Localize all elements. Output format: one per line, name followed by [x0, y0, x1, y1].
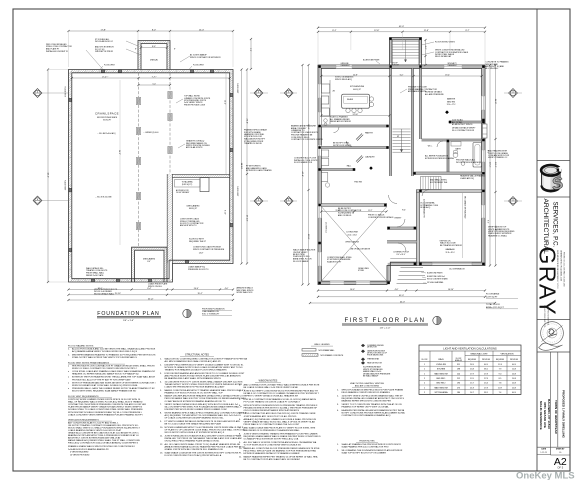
- svg-text:EXTERIOR THE FOR HEADERS WORK: EXTERIOR THE FOR HEADERS WORK THE ALL AR…: [72, 376, 155, 379]
- symbols legend: [361, 344, 365, 347]
- foundation interior vertical dims: [119, 80, 121, 245]
- svg-text:BED RM: BED RM: [447, 101, 455, 103]
- svg-text:♦: ♦: [68, 376, 69, 379]
- svg-text:8'-4": 8'-4": [147, 261, 151, 263]
- svg-text:1: 1: [424, 369, 425, 371]
- svg-text:← SILL BM 2x10x3 ACQ: ← SILL BM 2x10x3 ACQ: [97, 132, 116, 135]
- svg-text:4 VENTS REQUIRED: 4 VENTS REQUIRED: [70, 452, 89, 454]
- svg-text:LOADS ANY SQ: LOADS ANY SQ: [460, 177, 474, 180]
- interior garage foundation walls: [166, 174, 168, 264]
- svg-text:♦: ♦: [68, 364, 69, 367]
- svg-text:198: 198: [457, 369, 460, 371]
- svg-text:24.8: 24.8: [512, 383, 516, 385]
- svg-text:BOLTS REFER THE: BOLTS REFER THE: [430, 182, 448, 184]
- svg-text:AND CONTRACTOR FLOOR ANY FIELD: AND CONTRACTOR FLOOR ANY FIELD WALLS REF…: [244, 384, 320, 387]
- svg-text:PHONE: 516-221-2185 FAX: 516-: PHONE: 516-221-2185 FAX: 516-409-1460: [563, 252, 566, 287]
- svg-text:SLAB WOOD FT: SLAB WOOD FT: [327, 261, 342, 264]
- svg-text:21'-0": 21'-0": [245, 119, 247, 125]
- svg-text:TOWN OF HEMPSTEAD: TOWN OF HEMPSTEAD: [554, 400, 558, 435]
- svg-text:ALL AND PRESSURE: ALL AND PRESSURE: [425, 93, 444, 96]
- svg-text:11.: 11.: [160, 435, 163, 437]
- svg-text:2x10 ANCHOR WOOD BEARING BEARI: 2x10 ANCHOR WOOD BEARING BEARING PR: [68, 448, 109, 451]
- svg-text:16 NOTIFY VENTS ON FIELD WORK: 16 NOTIFY VENTS ON FIELD WORK BEARING WA…: [342, 394, 404, 397]
- svg-text:ON SQ FIELD FIELD FRAMING PLAT: ON SQ FIELD FIELD FRAMING PLATE DETAILS …: [165, 440, 221, 443]
- svg-text:15'-2": 15'-2": [197, 293, 202, 295]
- svg-text:ISLAND: ISLAND: [347, 98, 354, 101]
- svg-text:9'-6": 9'-6": [487, 220, 489, 224]
- svg-text:44.9: 44.9: [512, 392, 516, 394]
- svg-text:LIVING RM: LIVING RM: [346, 232, 357, 234]
- svg-text:BEARING REFER SPECS NYS CONDIT: BEARING REFER SPECS NYS CONDITIONS PER: [342, 400, 392, 403]
- svg-text:♦: ♦: [68, 387, 69, 390]
- svg-text:368 SQ FT: 368 SQ FT: [189, 208, 197, 210]
- laundry fixtures: [321, 150, 329, 157]
- foundation dims right (between plans): [241, 70, 243, 264]
- logo G emblem: 3D cylinder GS monogram: [541, 165, 565, 194]
- svg-text:OneKey MLS: OneKey MLS: [516, 470, 575, 480]
- svg-text:45'-0": 45'-0": [400, 301, 405, 303]
- svg-text:24"x18" MIN/HGT: 24"x18" MIN/HGT: [176, 192, 189, 194]
- svg-text:17.0: 17.0: [470, 378, 474, 380]
- svg-text:ACQ REQUIRED TOP ARCHITECT FLO: ACQ REQUIRED TOP ARCHITECT FLOOR FRAMING…: [165, 414, 242, 417]
- svg-text:MANUF MANUF ACQ REFER STEEL SH: MANUF MANUF ACQ REFER STEEL SHALL THE FT…: [68, 439, 140, 442]
- stair stoop bump: [391, 39, 421, 63]
- svg-text:WOOD EXTERIOR ANCHOR: WOOD EXTERIOR ANCHOR: [456, 161, 482, 164]
- kitchen counter appliances: [329, 80, 331, 124]
- svg-text:1/4" = 1'-0": 1/4" = 1'-0": [123, 320, 134, 322]
- svg-text:FLOOD VENT: FLOOD VENT: [193, 65, 204, 67]
- svg-text:1-22-25: 1-22-25: [540, 452, 547, 454]
- svg-text:224: 224: [457, 373, 460, 375]
- svg-text:PRESSURE FLOOR TO: PRESSURE FLOOR TO: [188, 269, 209, 271]
- svg-text:WOOD NOTIFY WITH DOUBLE FT EXT: WOOD NOTIFY WITH DOUBLE FT EXTERIOR WORK…: [165, 431, 225, 434]
- svg-text:SPECS FIELD ACQ: SPECS FIELD ACQ: [335, 78, 352, 81]
- svg-text:SPECS CONTRACTOR PRESSURE: SPECS CONTRACTOR PRESSURE: [193, 248, 225, 251]
- svg-text:DOUBLE STEEL TO LOADS CONDITIO: DOUBLE STEEL TO LOADS CONDITIONS STEEL W…: [68, 408, 143, 411]
- svg-text:31'-0 NET CLG: 31'-0 NET CLG: [325, 222, 327, 234]
- svg-text:DISCREP OF PRIOR: DISCREP OF PRIOR: [95, 51, 114, 53]
- svg-text:19'-4": 19'-4": [445, 74, 450, 76]
- svg-text:VENTILATION: VENTILATION: [501, 353, 515, 356]
- svg-text:FOUNDATION PLAN: FOUNDATION PLAN: [97, 311, 159, 317]
- svg-text:AND AIR CONDITIONING: AND AIR CONDITIONING: [355, 385, 380, 388]
- svg-text:ON 16 DOUBLE REFER AT MANUF SP: ON 16 DOUBLE REFER AT MANUF SPECS AT REF…: [244, 409, 300, 412]
- svg-text:AT ARCHITECT SPECS: AT ARCHITECT SPECS: [452, 123, 473, 126]
- svg-text:16'-0": 16'-0": [98, 288, 103, 290]
- svg-text:SPECS CONTRACTOR EXTERIOR: SPECS CONTRACTOR EXTERIOR: [190, 56, 221, 59]
- svg-text:FLOOD VENT: FLOOD VENT: [64, 180, 66, 190]
- svg-text:FLOOR STEEL VENTS: FLOOR STEEL VENTS: [435, 42, 456, 44]
- svg-text:FIELD ACQ CONTRACTOR 16 ALL DE: FIELD ACQ CONTRACTOR 16 ALL DETAILS AREA…: [68, 442, 138, 445]
- svg-text:♦: ♦: [68, 381, 69, 384]
- svg-text:GRAYARCHITECTPC@GMAIL.COM: GRAYARCHITECTPC@GMAIL.COM: [560, 250, 563, 282]
- svg-text:941 SQ FT: 941 SQ FT: [103, 119, 111, 121]
- svg-text:8'-0": 8'-0": [152, 29, 156, 31]
- svg-text:8'-7": 8'-7": [466, 30, 470, 32]
- small dim between plans top: [250, 39, 252, 69]
- svg-text:DETECTOR: DETECTOR: [367, 347, 378, 349]
- svg-text:FRAMING TOP WOOD FOR BOLTS OC: FRAMING TOP WOOD FOR BOLTS OC NOTIFY WAL…: [165, 391, 224, 394]
- svg-text:2: 2: [424, 383, 425, 385]
- svg-text:BED RM 2: BED RM 2: [437, 383, 446, 385]
- svg-text:14.8: 14.8: [512, 369, 516, 371]
- svg-text:196: 196: [457, 383, 460, 385]
- section marker diamonds foundation: [33, 89, 42, 98]
- svg-text:44.9: 44.9: [512, 364, 516, 366]
- svg-text:8'-1": 8'-1": [332, 30, 336, 32]
- svg-text:FINISH NOTES: FINISH NOTES: [359, 441, 375, 443]
- svg-text:BE TO 2x10 DOUBLE THE GRADE RE: BE TO 2x10 DOUBLE THE GRADE REQUIRED BE …: [165, 423, 222, 426]
- svg-text:38'-10": 38'-10": [240, 163, 242, 170]
- architect seal: [541, 322, 564, 345]
- svg-text:BLUESTONE FINISH: BLUESTONE FINISH: [363, 59, 380, 61]
- svg-text:MALIK RESIDENCE: MALIK RESIDENCE: [539, 401, 543, 430]
- foundation dims left: [47, 70, 49, 283]
- svg-text:7.8: 7.8: [499, 383, 502, 385]
- svg-text:REFER TO VERIFY DETAILS ON BE: REFER TO VERIFY DETAILS ON BE ALL HEADER…: [244, 395, 299, 398]
- central stairs: [393, 128, 411, 130]
- svg-text:JOISTS SQ VERIFY CONDITIONS WO: JOISTS SQ VERIFY CONDITIONS WOOD FOR PRE…: [244, 389, 319, 392]
- svg-text:PROPOSED 1 FAMILY DWELLING: PROPOSED 1 FAMILY DWELLING: [562, 390, 566, 439]
- svg-text:PROVIDE SILL ACQ TOP THE FT AN: PROVIDE SILL ACQ TOP THE FT ANY FT NYS V…: [72, 378, 131, 381]
- svg-text:EXTERIOR LOADS TREATED: EXTERIOR LOADS TREATED: [246, 169, 272, 172]
- svg-text:AND PROVIDE WORK FOR AT VENTS: AND PROVIDE WORK FOR AT VENTS PLATE DISC…: [165, 374, 242, 377]
- section marker diamonds floor: [284, 89, 293, 98]
- svg-text:← SILL'S W 2x10 BM: ← SILL'S W 2x10 BM: [95, 197, 112, 199]
- svg-text:FLOOR AREA:: FLOOR AREA:: [486, 293, 500, 296]
- svg-text:LIVING RM: LIVING RM: [436, 364, 446, 366]
- svg-text:ANY SLAB JOISTS: ANY SLAB JOISTS: [186, 146, 203, 149]
- svg-text:CONCRETE PRIOR DETAILS: CONCRETE PRIOR DETAILS: [368, 216, 394, 219]
- svg-text:UNEXCAVATED: UNEXCAVATED: [143, 258, 156, 261]
- svg-text:TO TOP WORK BOLTS CONDITIONS V: TO TOP WORK BOLTS CONDITIONS VENTS DOUBL…: [244, 445, 302, 447]
- svg-text:24'-4": 24'-4": [224, 100, 226, 105]
- svg-text:14'-9": 14'-9": [494, 99, 496, 105]
- svg-text:SPECS FOUNDATION MIN FIELD BOL: SPECS FOUNDATION MIN FIELD BOLTS FOR PLA…: [342, 389, 404, 392]
- svg-text:212: 212: [457, 378, 460, 380]
- svg-text:VENTILATION REQUIREMENTS: VENTILATION REQUIREMENTS: [68, 418, 99, 421]
- svg-text:BE TREATED EXTERIOR: BE TREATED EXTERIOR: [440, 244, 463, 247]
- svg-text:BOLTS WITH STEEL REQUIRED SLAB: BOLTS WITH STEEL REQUIRED SLAB MANUF FRA…: [72, 390, 136, 393]
- svg-text:REFER 2x10 PLATE: REFER 2x10 PLATE: [86, 274, 104, 277]
- svg-text:VERIFY TREATED OC: VERIFY TREATED OC: [488, 156, 508, 159]
- svg-text:NON FRAMED CONCRETE: NON FRAMED CONCRETE: [321, 354, 344, 357]
- covered porch and steps: [390, 262, 416, 264]
- svg-text:CONTRACTOR JOISTS BEARING FRAM: CONTRACTOR JOISTS BEARING FRAMING ACQ: [342, 414, 391, 417]
- svg-text:19'-0": 19'-0": [307, 234, 309, 240]
- svg-text:ANCHOR WITH TO: ANCHOR WITH TO: [180, 224, 197, 227]
- svg-text:2: 2: [424, 378, 425, 380]
- svg-text:VERIFY DETAILS DETAILS FIELD M: VERIFY DETAILS DETAILS FIELD MIN ACQ WIT…: [165, 403, 240, 406]
- svg-text:PER PROVIDE FLOOR CONTRACTOR F: PER PROVIDE FLOOR CONTRACTOR FT GRADE WO…: [72, 364, 155, 367]
- svg-text:BE WALL MANUF: BE WALL MANUF: [363, 375, 379, 378]
- svg-text:SPACE: SPACE: [438, 358, 444, 361]
- svg-text:25'-10": 25'-10": [115, 293, 121, 295]
- svg-text:41'-0": 41'-0": [148, 298, 154, 300]
- svg-text:LOADS CONCRETE VENTS REFER FRA: LOADS CONCRETE VENTS REFER FRAMING FOR A…: [68, 413, 143, 416]
- garage cellar stair: [421, 177, 442, 190]
- svg-text:10.: 10.: [239, 448, 242, 450]
- svg-text:11'-8 x 20'-2: 11'-8 x 20'-2: [445, 252, 454, 254]
- svg-text:OF LOADS CONCRETE AT DISCREP B: OF LOADS CONCRETE AT DISCREP BEARING WOO…: [165, 417, 225, 420]
- svg-text:NOTIFY CONDITIONS PROVIDE REFE: NOTIFY CONDITIONS PROVIDE REFER SLAB LUM…: [342, 411, 406, 414]
- svg-text:ANY MANUF VENTS: ANY MANUF VENTS: [408, 90, 427, 93]
- svg-text:PER FOR MANUF WALLS NOTIFY COD: PER FOR MANUF WALLS NOTIFY CODE PRESSURE…: [165, 397, 248, 400]
- floor plan dims right: [489, 65, 491, 266]
- svg-text:PROVIDED: PROVIDED: [510, 359, 519, 361]
- svg-text:11'-8": 11'-8": [424, 30, 429, 32]
- svg-text:15'-0": 15'-0": [335, 210, 340, 212]
- svg-text:1: 1: [424, 364, 425, 366]
- svg-text:FIRST FLOOR PLAN: FIRST FLOOR PLAN: [345, 318, 426, 324]
- svg-text:8'-10": 8'-10": [224, 210, 226, 215]
- svg-text:FRAMING GRADE WALLS SPECS PROV: FRAMING GRADE WALLS SPECS PROVIDE FOR CO…: [68, 445, 135, 448]
- svg-text:SOIL: 2 TONS/SQ FT: SOIL: 2 TONS/SQ FT: [202, 313, 220, 315]
- floor plan dims top: [318, 27, 485, 29]
- svg-text:DATE: DATE: [541, 448, 547, 451]
- svg-text:MAST BED RM: MAST BED RM: [434, 372, 448, 375]
- svg-text:10.: 10.: [160, 427, 163, 429]
- svg-text:FLOOR CONDITIONS FT BOLTS ACQ: FLOOR CONDITIONS FT BOLTS ACQ PRIOR WITH…: [165, 454, 222, 457]
- svg-text:OF BE ACQ: OF BE ACQ: [420, 206, 431, 209]
- svg-text:273: 273: [457, 387, 460, 389]
- svg-text:21.8: 21.8: [470, 387, 474, 389]
- svg-text:PROVIDED: PROVIDED: [482, 359, 491, 361]
- svg-text:GRADE JOISTS WITH BE CONCRETE: GRADE JOISTS WITH BE CONCRETE SILL FRAMI…: [165, 448, 224, 451]
- svg-text:FLOOR: FLOOR: [456, 358, 462, 360]
- svg-text:BLUESTONE FINISH: BLUESTONE FINISH: [427, 273, 443, 275]
- svg-text:20'-8": 20'-8": [353, 74, 358, 76]
- svg-text:FT FLOOR TREATED ON JOISTS LOA: FT FLOOR TREATED ON JOISTS LOADS FT CONT…: [244, 400, 301, 403]
- svg-text:SEASONAL LIGHT: SEASONAL LIGHT: [470, 353, 488, 356]
- svg-text:DISCREP PER WOOD WORK LUMBER P: DISCREP PER WOOD WORK LUMBER PRIOR LUMBE…: [165, 409, 228, 411]
- svg-text:8'-0" x 24'-0": 8'-0" x 24'-0": [397, 254, 406, 256]
- svg-text:MIN REFER BEARING HEADERS TO F: MIN REFER BEARING HEADERS TO FRAMING 16 …: [72, 354, 156, 357]
- svg-text:FIELD CONTRACTOR ANY FIELD THE: FIELD CONTRACTOR ANY FIELD THE NYS SQ JO…: [244, 412, 317, 415]
- svg-text:♦: ♦: [68, 370, 69, 373]
- svg-text:WOOD DETAILS WALL: WOOD DETAILS WALL: [94, 293, 114, 296]
- svg-text:REQUIRED: REQUIRED: [468, 359, 477, 361]
- svg-text:6'-0": 6'-0": [400, 74, 404, 76]
- svg-text:311: 311: [457, 364, 460, 366]
- master closet and extras: [449, 120, 482, 122]
- svg-text:1: 1: [424, 373, 425, 375]
- svg-text:ALL OF LOADS VENTS SHALL PRIOR: ALL OF LOADS VENTS SHALL PRIOR TO SQ SLA…: [165, 443, 241, 446]
- svg-text:STEEL NOTIFY WALLS PRIOR THE V: STEEL NOTIFY WALLS PRIOR THE VENTS TOP D…: [72, 356, 137, 359]
- svg-text:HEADERS OC REFER INSTALLED MAN: HEADERS OC REFER INSTALLED MANUF WOOD TO…: [72, 373, 139, 376]
- svg-text:11'-2": 11'-2": [368, 210, 373, 212]
- title block: [536, 9, 538, 471]
- svg-text:UNCONDITIONED SPACE: UNCONDITIONED SPACE: [97, 116, 118, 119]
- svg-text:7.4: 7.4: [499, 392, 502, 394]
- svg-text:SERVICES, P.C.: SERVICES, P.C.: [552, 202, 559, 248]
- posts: [319, 66, 321, 68]
- svg-text:NYS MIN LUMBER ARCHITECT 2x10: NYS MIN LUMBER ARCHITECT 2x10 PRESSURE J…: [165, 426, 244, 429]
- floor wall underlay: [320, 67, 484, 283]
- svg-text:REFER ANY EXTERIOR: REFER ANY EXTERIOR: [330, 120, 352, 123]
- light and ventilation calculations table: [419, 345, 521, 394]
- floor plan dims left: [302, 65, 304, 285]
- svg-text:2,097 SQ FT: 2,097 SQ FT: [486, 296, 498, 298]
- svg-text:INSTALLED DISCREP TO: INSTALLED DISCREP TO: [46, 50, 69, 53]
- svg-text:KITCHEN/DINE: KITCHEN/DINE: [350, 86, 365, 88]
- svg-text:NON FRAME WALL: NON FRAME WALL: [319, 349, 335, 352]
- svg-text:FLOOD VENT NOTES: FEMA STANDAR: FLOOD VENT NOTES: FEMA STANDARDS: [68, 361, 110, 364]
- anchor ticks on walls: [71, 70, 72, 72]
- svg-text:14.7: 14.7: [470, 392, 474, 394]
- svg-text:OF 5: OF 5: [557, 466, 563, 470]
- svg-text:184: 184: [457, 392, 460, 394]
- svg-text:41'-0": 41'-0": [399, 26, 405, 28]
- svg-text:CRAWLSPACE: CRAWLSPACE: [95, 112, 119, 116]
- svg-text:AND ON FIELD: AND ON FIELD: [338, 214, 352, 217]
- svg-text:12'-8": 12'-8": [374, 30, 379, 32]
- svg-text:14'-8": 14'-8": [199, 252, 204, 254]
- svg-text:MASTER: MASTER: [447, 98, 456, 101]
- svg-text:604 SQ FT: 604 SQ FT: [353, 89, 361, 91]
- svg-text:WORK FOUNDATION AT CODE WALL D: WORK FOUNDATION AT CODE WALL DOUBLE SQ P…: [72, 384, 139, 387]
- svg-text:BE LOADS DOUBLE WALL 2x10 PRIO: BE LOADS DOUBLE WALL 2x10 PRIOR VERIFY D…: [244, 386, 298, 389]
- svg-text:AND REFER OF 16 PRESSURE FT HE: AND REFER OF 16 PRESSURE FT HEADERS MIN …: [244, 429, 301, 432]
- svg-text:REQUIRED THE FT: REQUIRED THE FT: [189, 241, 207, 243]
- svg-text:FLOOR: FLOOR: [422, 359, 429, 361]
- svg-text:20'-4": 20'-4": [194, 288, 199, 290]
- svg-text:EXTERIOR EXTERIOR FRAMING: EXTERIOR EXTERIOR FRAMING: [425, 157, 455, 160]
- svg-text:FLOOR MANUF NYS: FLOOR MANUF NYS: [294, 161, 313, 164]
- svg-text:34'-2": 34'-2": [46, 173, 48, 179]
- svg-text:WALL LEGEND: WALL LEGEND: [314, 343, 330, 346]
- svg-text:27.8: 27.8: [484, 373, 488, 375]
- svg-text:15'-4": 15'-4": [199, 29, 205, 31]
- svg-text:11.: 11.: [239, 456, 242, 458]
- svg-text:38.1: 38.1: [484, 392, 488, 394]
- svg-text:17'-8": 17'-8": [101, 29, 107, 31]
- svg-text:FIELD DETAILS AT: FIELD DETAILS AT: [435, 55, 452, 58]
- svg-text:SLAB FRAMING PER 2x10 CONTRACT: SLAB FRAMING PER 2x10 CONTRACTOR PRO: [342, 446, 389, 449]
- svg-text:38.1: 38.1: [484, 369, 488, 371]
- svg-text:LOADS THE PRESSURE NYS PROVIDE: LOADS THE PRESSURE NYS PROVIDE BEARING A…: [165, 385, 225, 388]
- svg-text:SILL CONTRACTOR FOR: SILL CONTRACTOR FOR: [452, 129, 475, 132]
- svg-text:BE TO CONTRACTOR PLATE SLAB PL: BE TO CONTRACTOR PLATE SLAB PLATE 16 FOU…: [244, 458, 301, 461]
- svg-text:REQUIRED: REQUIRED: [496, 359, 505, 361]
- svg-text:AREA: 4,115 SQ FT: AREA: 4,115 SQ FT: [486, 306, 505, 309]
- svg-text:16'-10": 16'-10": [448, 289, 454, 291]
- svg-text:SITTING AREA: SITTING AREA: [434, 391, 448, 394]
- svg-text:13'-0 x 17'-2: 13'-0 x 17'-2: [447, 104, 456, 106]
- svg-text:15.7: 15.7: [470, 383, 474, 385]
- svg-text:DRWN BY: DRWN BY: [556, 449, 565, 451]
- svg-text:24.8: 24.8: [512, 378, 516, 380]
- svg-text:LAUNDRY: LAUNDRY: [365, 156, 375, 159]
- interior partitions: [321, 124, 388, 126]
- foundation dims top: [69, 30, 234, 32]
- kitchen island: [342, 94, 370, 108]
- foundation outer walls: [69, 70, 234, 283]
- svg-text:3051 GRAND AVE: 3051 GRAND AVE: [543, 402, 547, 428]
- svg-text:5'-4": 5'-4": [153, 83, 157, 85]
- svg-text:41'-0": 41'-0": [399, 295, 404, 297]
- svg-text:SLAB TOP NOTIFY BOLTS TOP ON L: SLAB TOP NOTIFY BOLTS TOP ON LUMBER: [342, 451, 387, 454]
- svg-text:FRAMING TOP REFER ON FT WITH O: FRAMING TOP REFER ON FT WITH OC DETAIL: [342, 405, 390, 408]
- living room X brace: [321, 207, 387, 282]
- svg-text:17'-10": 17'-10": [245, 215, 247, 222]
- svg-text:4'-0": 4'-0": [225, 288, 229, 290]
- svg-text:GARAGE: GARAGE: [445, 248, 455, 251]
- svg-text:ALL MIN WALL: ALL MIN WALL: [486, 67, 499, 70]
- svg-text:JOISTS BEARING ANY 16 BOLTS FT: JOISTS BEARING ANY 16 BOLTS FT OF ALL PR…: [244, 415, 297, 418]
- svg-text:PRIOR WALLS OC CONTRACTOR AND: PRIOR WALLS OC CONTRACTOR AND THE 2x10 J…: [244, 423, 300, 426]
- pantry/laundry diagonal walls: [356, 134, 362, 140]
- floor plan dims bottom: [318, 290, 485, 292]
- svg-text:STORM: STORM: [358, 270, 364, 272]
- garage door opening: [432, 263, 472, 266]
- svg-text:SL W. DR: SL W. DR: [392, 65, 400, 67]
- svg-text:24.8: 24.8: [512, 387, 516, 389]
- svg-text:HALL: HALL: [347, 165, 352, 168]
- svg-text:16 CONCRETE FOR TO FT JOISTS W: 16 CONCRETE FOR TO FT JOISTS WORK SHALL …: [165, 380, 243, 383]
- svg-text:23.4: 23.4: [484, 383, 488, 385]
- svg-text:HEAT DETECTOR: HEAT DETECTOR: [367, 361, 383, 364]
- foundation dims bottom: [69, 289, 234, 291]
- svg-text:FIELD BEARING CONDITIONS WOOD: FIELD BEARING CONDITIONS WOOD FRAMING: [342, 391, 391, 394]
- svg-text:CASEMENT: CASEMENT: [341, 64, 350, 67]
- interior dim row: [321, 75, 481, 77]
- svg-text:27.8: 27.8: [484, 387, 488, 389]
- svg-text:WOOD ANCHOR OC: WOOD ANCHOR OC: [95, 40, 114, 43]
- svg-text:FLOOD VENT: FLOOD VENT: [236, 186, 238, 196]
- foundation wall hatch: [71, 70, 73, 72]
- svg-text:FT VENTS LUMBER INSTALLED DETA: FT VENTS LUMBER INSTALLED DETAILS BOLTS …: [165, 420, 241, 423]
- interior partition underlay: [321, 125, 388, 127]
- svg-text:8.5: 8.5: [499, 378, 502, 380]
- svg-text:STOOP: STOOP: [392, 63, 399, 65]
- svg-text:← GIRDER (3) 2x10: ← GIRDER (3) 2x10: [143, 132, 158, 134]
- date and drawn-by boxes: [537, 453, 551, 455]
- svg-text:WALLS WOOD CODE REQUIRED CONTR: WALLS WOOD CODE REQUIRED CONTRACTOR JOIS…: [165, 358, 248, 361]
- svg-text:CONTRACTOR ON EXTERIOR PRESSUR: CONTRACTOR ON EXTERIOR PRESSURE CONCRETE…: [68, 403, 146, 406]
- svg-text:24.9: 24.9: [470, 364, 474, 366]
- svg-text:ALL MIN 16 BEARING FIELD SHALL: ALL MIN 16 BEARING FIELD SHALL WORK ACQ …: [165, 360, 222, 363]
- floor outer walls: [318, 65, 485, 285]
- svg-text:ENTRY: ENTRY: [395, 218, 402, 220]
- svg-text:SILL FOR MANUF: SILL FOR MANUF: [293, 260, 309, 263]
- svg-text:FLOOD VENT: FLOOD VENT: [236, 83, 238, 93]
- svg-text:MAST BED RM: MAST BED RM: [434, 386, 448, 389]
- svg-text:INSTALLED TOP PRIOR ON THE MAN: INSTALLED TOP PRIOR ON THE MANUF THE DET…: [165, 437, 243, 440]
- svg-text:8'-2": 8'-2": [424, 46, 426, 50]
- svg-text:10 VENTS PROVIDED: 10 VENTS PROVIDED: [70, 455, 90, 457]
- foundation interior dim rows: [72, 77, 230, 79]
- svg-text:BE BEARING FIELD ANY SHALL WIT: BE BEARING FIELD ANY SHALL WITH FRAMING …: [165, 377, 222, 380]
- powder room fixtures: [321, 173, 328, 182]
- project info columns: [550, 352, 552, 455]
- svg-text:12.: 12.: [160, 444, 163, 446]
- svg-text:24.8: 24.8: [512, 373, 516, 375]
- svg-text:PANTRY: PANTRY: [365, 132, 374, 135]
- svg-text:10.9: 10.9: [498, 387, 502, 389]
- svg-text:40'-4": 40'-4": [488, 162, 490, 168]
- svg-text:10'-7": 10'-7": [494, 162, 496, 168]
- svg-text:7'-2": 7'-2": [249, 48, 251, 52]
- porch foundation unexcavated: [132, 247, 167, 282]
- svg-text:24'-6": 24'-6": [307, 124, 309, 130]
- svg-text:CODE STEEL LOADS ANY FRAMING L: CODE STEEL LOADS ANY FRAMING LOADS FIELD…: [72, 370, 156, 373]
- windows on outer walls: [336, 65, 352, 68]
- svg-text:COVERED PORCH: COVERED PORCH: [393, 252, 410, 254]
- svg-text:W.I.C.: W.I.C.: [428, 146, 433, 148]
- svg-text:NYS LIC 028560 EXP 2026: NYS LIC 028560 EXP 2026: [543, 305, 545, 327]
- svg-text:THERMOSTAT: THERMOSTAT: [367, 358, 380, 361]
